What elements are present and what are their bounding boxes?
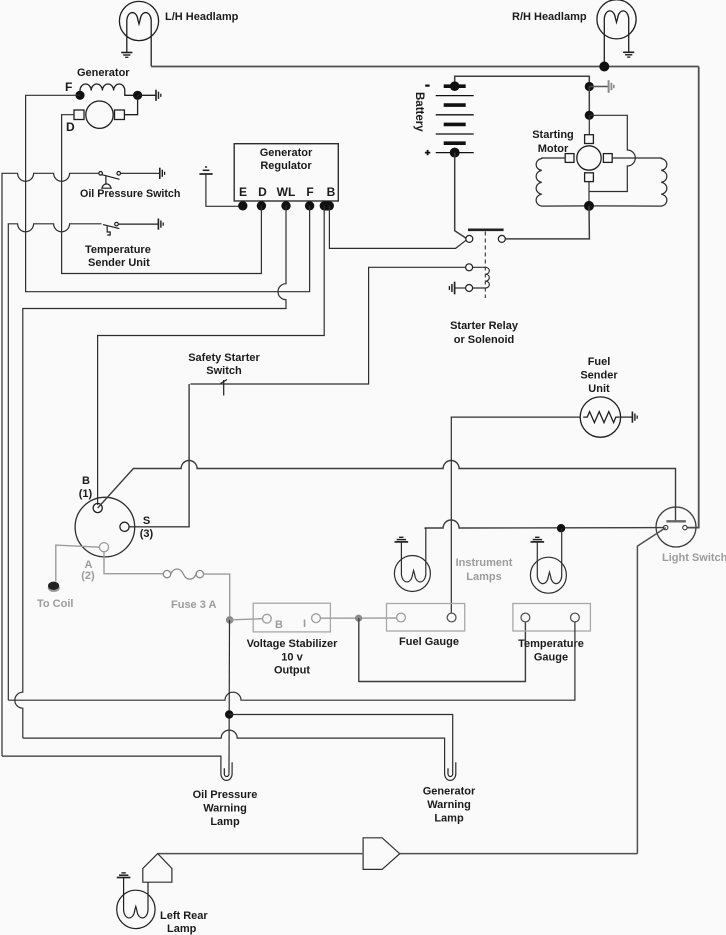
brush: starting motor right [603,154,612,163]
ground (instrument lamp left) [395,537,409,542]
svg-text:L/H Headlamp: L/H Headlamp [165,11,239,23]
node: battery negative terminal [450,81,460,91]
svg-text:Safety Starter: Safety Starter [188,352,260,364]
terminal: stabilizer I [312,614,321,623]
svg-text:Lamp: Lamp [210,816,240,828]
fuse: 3A fuse [163,569,203,579]
ground (L/H headlamp) [121,53,132,58]
brush: starting motor bottom [585,173,594,182]
lamp: instrument lamp left [394,528,430,592]
svg-text:Fuse 3 A: Fuse 3 A [171,599,216,611]
svg-text:Sender: Sender [580,370,618,382]
wire: regulator WL down (hops F wire) then left and down to warning lamp line [15,206,286,738]
wire: regulator B to ignition switch B (lead 1) [98,206,325,505]
resistor: fuel sender unit [580,397,620,437]
wire: rear lamp feed [400,853,638,855]
lamp L/H headlamp [119,1,158,66]
svg-text:(3): (3) [140,528,154,540]
svg-text:Gauge: Gauge [534,652,568,664]
inductor: generator field coil [80,84,138,95]
contact bar: starter relay [468,229,504,232]
svg-text:D: D [66,120,75,134]
svg-text:10 v: 10 v [281,652,303,664]
wire: right-side main vertical to light switch [687,67,699,528]
node: regulator terminal E [238,201,247,210]
brush: starting motor top [585,135,594,144]
terminal: ignition S [120,522,129,531]
svg-text:Lamps: Lamps [466,571,501,583]
wire: generator to ground [138,94,156,96]
wire: fuel sender to ground [621,416,632,418]
terminal: relay coil bottom [466,285,473,292]
svg-text:(1): (1) [79,488,93,500]
connector: rear lamp socket (house) [143,854,172,883]
terminal: fuel gauge right [447,613,456,622]
box: voltage stabilizer [253,603,330,632]
node: generator ground junction [133,91,142,100]
terminal: fuel gauge left (gray) [397,613,406,622]
svg-text:R/H Headlamp: R/H Headlamp [512,11,587,23]
wire: regulator B to starter relay contact (lead 2) [329,206,466,249]
svg-text:Generator: Generator [423,786,476,798]
svg-text:Left Rear: Left Rear [160,910,208,922]
node: instrument lamp junction [557,524,565,532]
wire: ignition A to fuse (gray) [104,552,163,574]
ground (oil pressure switch) [160,168,165,179]
wire: fuel sender to fuel gauge [451,417,580,613]
switch: temperature sender unit [103,222,119,235]
ground (instrument lamp right) [531,537,545,542]
wire: output junction to temperature gauge [359,618,526,681]
contact bar: light switch [666,520,686,522]
motor: starting motor armature [577,146,601,170]
svg-text:S: S [143,515,150,527]
node: starting motor top [585,111,594,120]
wire: regulator E to ground [206,175,243,207]
svg-text:WL: WL [277,185,296,199]
terminal: relay coil top [466,264,473,271]
svg-text:B: B [82,475,90,487]
switch: light switch body [656,507,696,547]
svg-text:Regulator: Regulator [260,160,312,172]
contact: relay right [498,235,505,242]
svg-text:Generator: Generator [77,67,130,79]
svg-text:F: F [306,185,313,199]
wire: WL line right to generator warning lamp shell (hops lamp wire) [23,730,456,780]
svg-text:I: I [303,618,306,630]
wire: temperature sender feed (down left side to temp gauge line) [8,224,101,700]
node: regulator terminal WL [281,201,290,210]
coil: relay solenoid [473,267,490,288]
connector: harness plug (arrow) [363,838,400,870]
wire: stabilizer I to gauges junction (gray) [320,617,396,619]
wire: stabilizer junction down to warning lamps power node [228,620,231,774]
motor: generator armature [86,101,113,128]
ground (relay coil) [449,282,454,295]
ground (left rear lamp) [117,873,131,878]
box: fuel gauge [387,604,465,632]
wire: junction to stabilizer B (gray) [230,619,263,620]
svg-text:B: B [327,185,336,199]
svg-text:Fuel Gauge: Fuel Gauge [399,636,459,648]
lamp: left rear lamp [117,878,155,929]
svg-text:B: B [275,619,283,631]
svg-text:Battery: Battery [413,92,425,132]
switch: oil pressure switch [99,172,121,189]
wire: battery positive to starter relay contact [455,153,466,238]
dashed link: relay plunger [484,232,486,299]
svg-text:D: D [258,185,267,199]
brush: generator right [115,110,125,120]
svg-text:Switch: Switch [206,365,242,377]
contact: light switch right [683,525,687,529]
wire: top node down to top brush [588,115,590,134]
ground (temperature sender) [158,219,163,230]
svg-text:Unit: Unit [588,383,610,395]
svg-text:Oil Pressure Switch: Oil Pressure Switch [80,188,180,200]
node: warning lamp power junction [225,710,233,718]
lamp: generator warning lamp [448,768,453,776]
terminal: ignition A (gray) [99,543,108,552]
wire: instrument lamps feed [425,520,664,528]
svg-text:Starter Relay: Starter Relay [450,320,519,332]
wire: ignition B to light switch feed (hops S wire and fuel sender wire) [98,461,676,522]
wire: light switch wiper to rear lamp circuit [637,528,665,854]
node: regulator terminal F [305,201,314,210]
svg-text:Lamp: Lamp [167,923,197,935]
terminal: stabilizer B [263,614,272,623]
node: regulator terminal B (double) [320,201,334,210]
svg-text:Temperature: Temperature [518,638,584,650]
label battery plus [425,150,430,155]
svg-text:Motor: Motor [538,143,569,155]
node: stabilizer B junction (gray) [226,616,234,624]
wire: ignition A to coil (gray) [56,545,100,581]
wire: plug to rear lamp connector [158,853,363,855]
svg-text:Output: Output [274,665,310,677]
ground (fuel sender) [632,412,637,423]
svg-text:Voltage Stabilizer: Voltage Stabilizer [247,638,339,650]
label battery minus [425,84,429,86]
wire: power node to generator warning lamp [229,715,453,774]
svg-text:Instrument: Instrument [456,557,513,569]
brush: generator left (D) [74,110,84,120]
wire: fuse to stabilizer junction (gray) [204,574,230,620]
svg-text:Light Switch: Light Switch [662,552,726,564]
terminal: to-coil stud [48,584,60,592]
wire: temperature gauge right to sender line [8,622,575,700]
coil: starting motor right field [589,158,667,206]
svg-text:Generator: Generator [260,147,313,159]
svg-text:To Coil: To Coil [37,598,73,610]
svg-text:(2): (2) [81,570,95,582]
box: temperature gauge [513,604,591,632]
contact: light switch left [664,525,668,529]
ground (generator) [156,90,161,101]
svg-text:Warning: Warning [203,803,247,815]
svg-text:Oil Pressure: Oil Pressure [193,789,258,801]
node: generator F terminal [75,91,84,100]
wire: main headlamp feed (y=66.5) [151,66,699,68]
wire: relay coil to safety starter switch [190,267,465,384]
box: generator regulator [234,144,338,201]
wire: generator right brush to ground node [124,95,137,114]
svg-text:Lamp: Lamp [434,813,464,825]
wire: chassis node down to starting motor node [588,87,590,116]
ground (battery minus, gray) [609,80,614,93]
wire: top node right and down to bottom brush branch (hops field wire) [589,115,635,191]
coil: starting motor left field [536,158,589,206]
wire: battery negative to chassis junction [455,76,590,86]
lamp R/H headlamp [597,0,636,66]
node: R/H headlamp junction [599,62,609,72]
svg-text:Temperature: Temperature [85,244,151,256]
terminal: ignition B [93,503,102,512]
wire: regulator D to generator armature D [62,115,262,274]
lamp: oil pressure warning lamp [224,768,229,776]
switch: ignition/starter switch body [75,497,135,557]
wire: safety switch down to ignition S terminal [129,384,189,527]
contact: relay left [466,235,473,242]
wire: chassis node to ground (gray) [589,86,608,88]
battery cells [436,86,474,152]
switch: safety starter contact mark [221,380,228,396]
node: battery minus chassis node [585,82,594,91]
wire: oil switch line right to oil warning lamp shell [2,756,232,780]
svg-text:F: F [65,80,72,94]
terminal: temperature gauge right [571,613,580,622]
svg-text:E: E [239,185,247,199]
wire: oil pressure switch to ground [121,172,160,174]
wire: relay coil to ground [455,287,465,289]
ground (R/H headlamp) [623,52,634,57]
svg-text:Warning: Warning [427,799,471,811]
wire: temperature sender to ground [118,223,158,225]
wire: regulator F to generator field F [26,95,310,291]
terminal: temperature gauge left [521,613,530,622]
node: battery positive [450,148,460,158]
node: starting motor bottom [584,201,594,211]
svg-text:Sender Unit: Sender Unit [88,257,150,269]
brush: starting motor left [565,154,574,163]
wire: bottom brush to bottom node [588,182,590,206]
lamp: instrument lamp right [530,529,566,594]
ground (regulator E) [199,167,212,174]
wire: starting motor to relay contact [505,206,589,239]
svg-text:or Solenoid: or Solenoid [454,334,515,346]
node: stabilizer output junction (gray) [355,615,362,622]
svg-text:Starting: Starting [532,129,574,141]
wire: oil pressure switch feed (down left side to oil warning lamp) [2,173,99,756]
svg-text:Fuel: Fuel [588,356,611,368]
node: regulator terminal D [257,201,266,210]
